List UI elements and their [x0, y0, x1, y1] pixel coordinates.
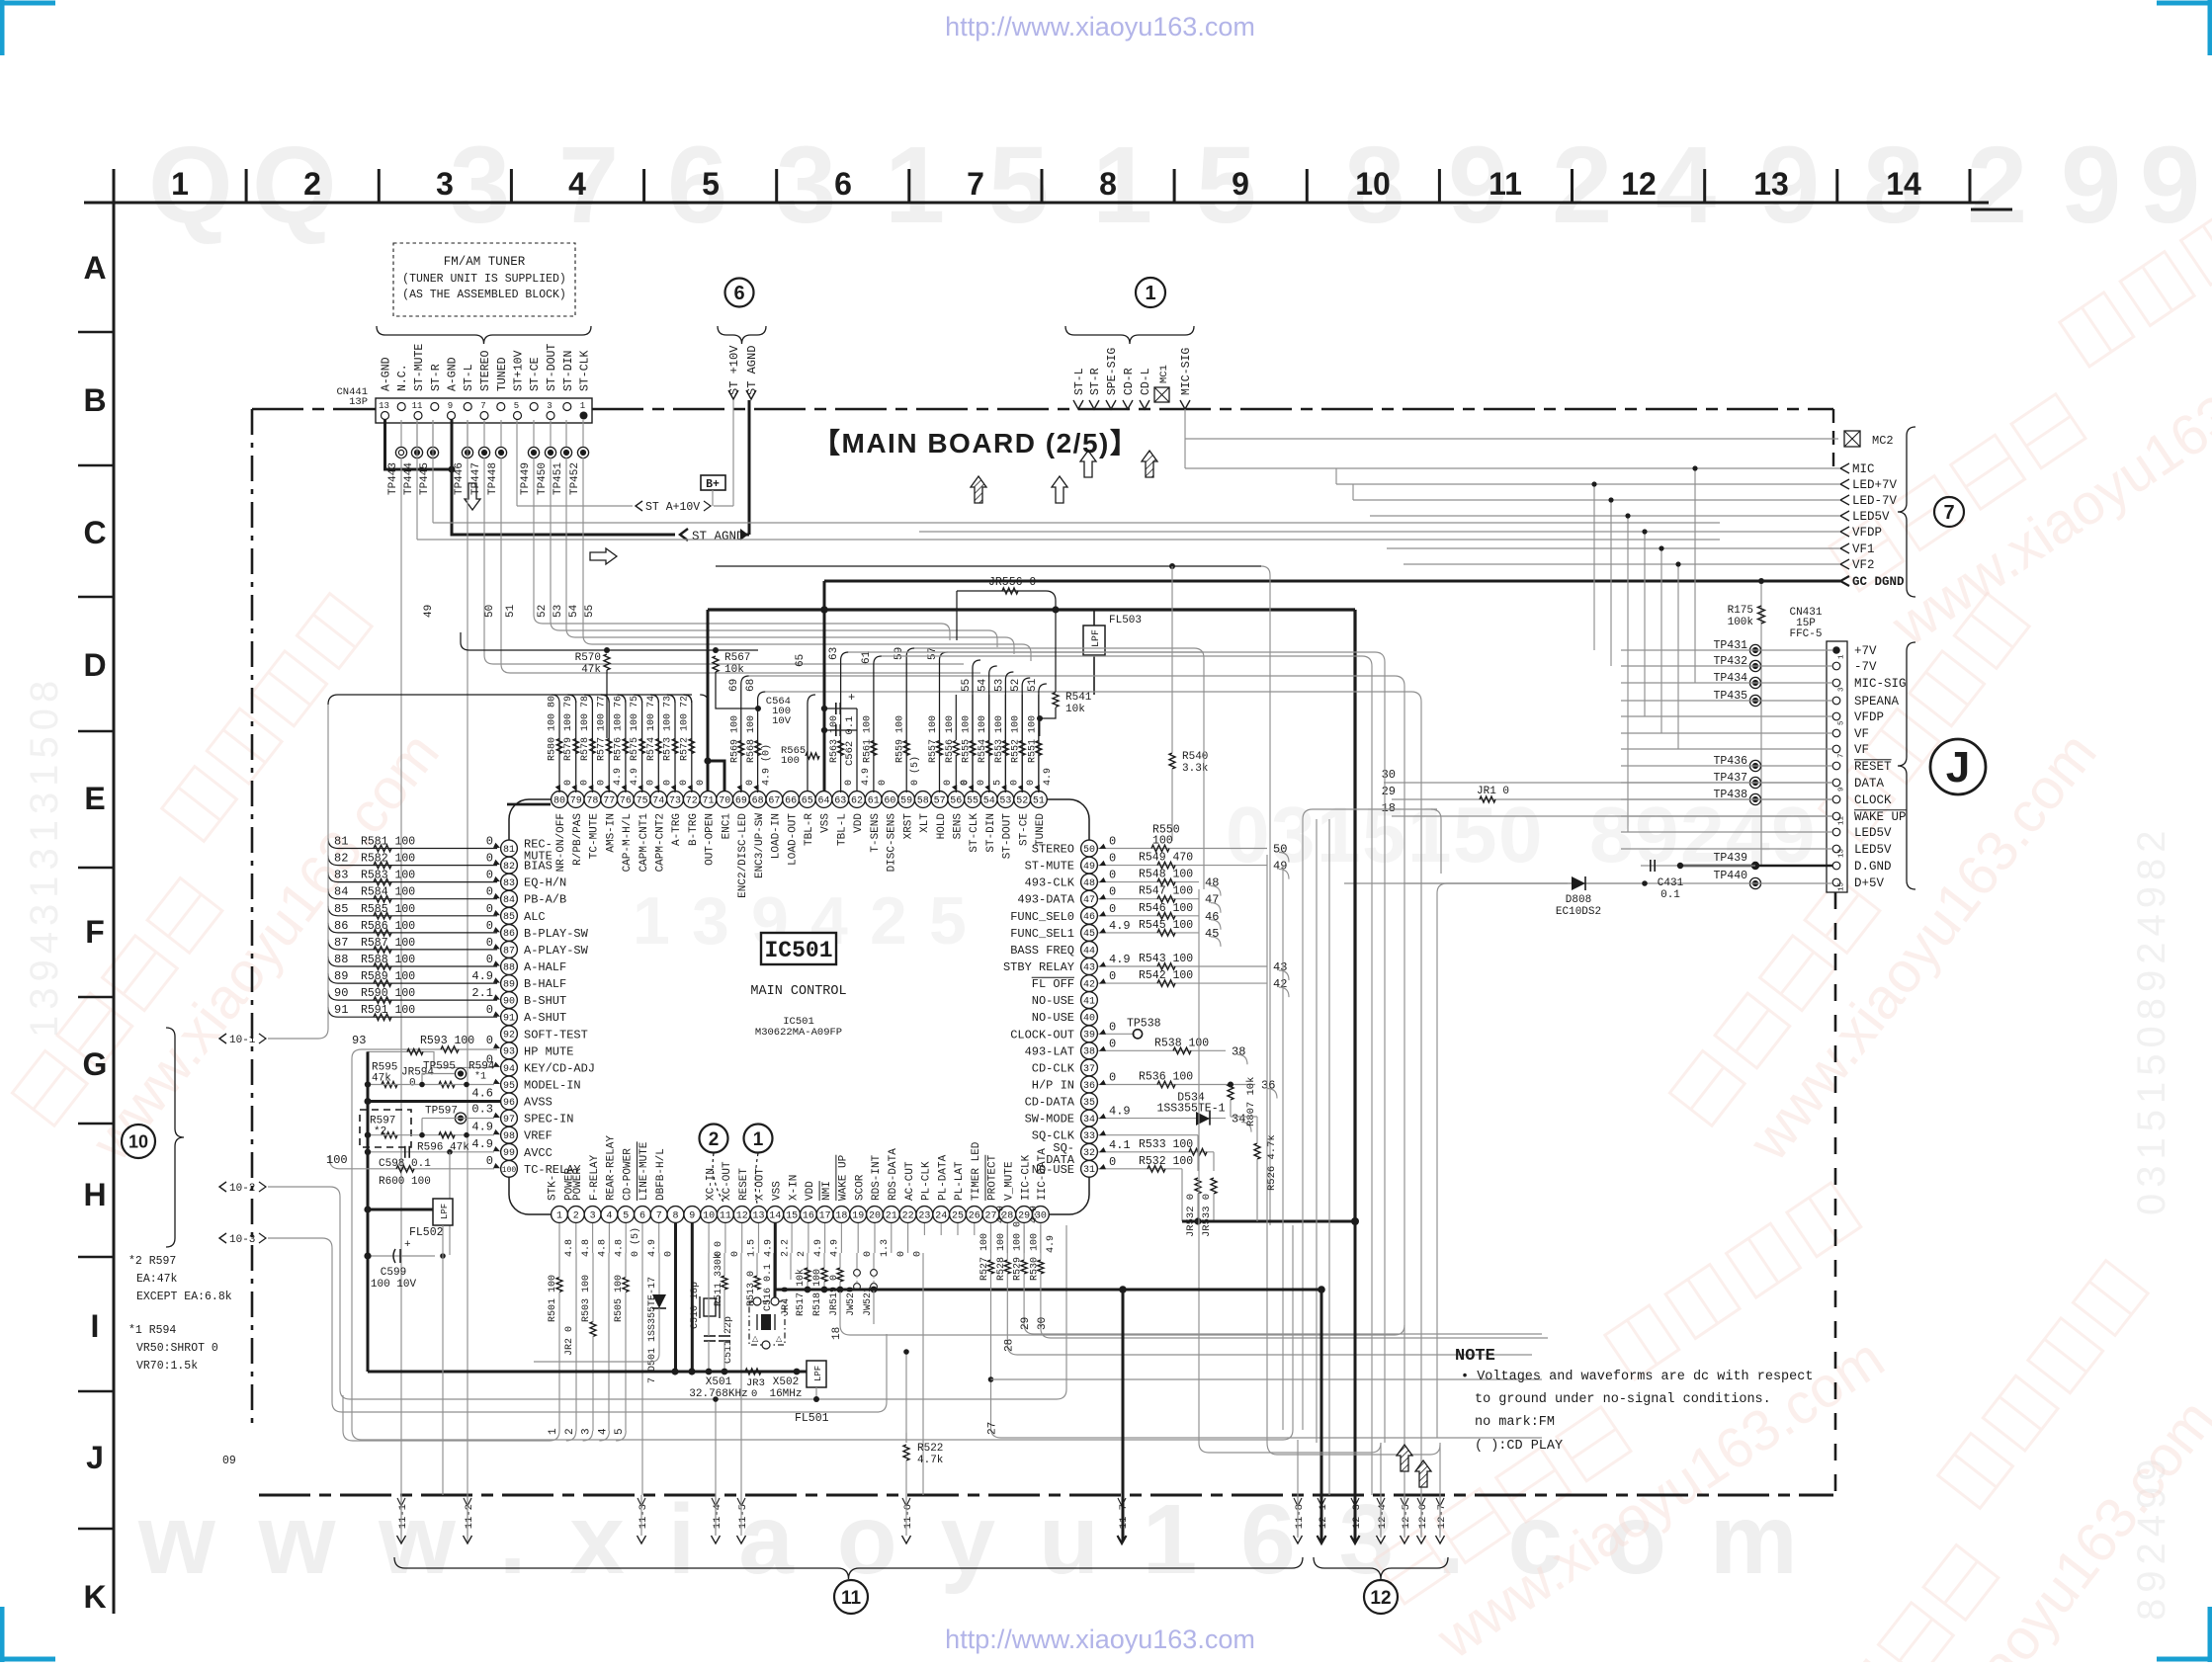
FL502 LPF box: [433, 1199, 453, 1225]
IC501 pin 42 circle: [1081, 975, 1098, 992]
svg-text:98: 98: [503, 1131, 515, 1142]
IC501 pin 13 circle: [750, 1207, 767, 1223]
IC501 pin 14 circle: [767, 1207, 784, 1223]
svg-text:CD-DATA: CD-DATA: [1025, 1096, 1075, 1110]
circled 12: [1364, 1580, 1398, 1614]
svg-text:2: 2: [564, 1428, 576, 1435]
svg-text:1.5: 1.5: [747, 1239, 758, 1257]
svg-text:12: 12: [1370, 1588, 1391, 1609]
svg-text:VREF: VREF: [524, 1129, 553, 1143]
signal ST-L arrow: [1073, 400, 1083, 409]
svg-text:90: 90: [503, 997, 515, 1008]
resistor R577 100: [606, 739, 612, 754]
capacitor C431 0.1: [1641, 865, 1755, 867]
IC501 pin 29 circle: [1016, 1207, 1033, 1223]
svg-text:B-PLAY-SW: B-PLAY-SW: [524, 927, 589, 941]
wire pin 62 VDD column: [856, 708, 858, 792]
svg-text:JR2 0: JR2 0: [564, 1326, 575, 1356]
svg-text:R568 100: R568 100: [746, 715, 757, 763]
svg-text:4: 4: [1656, 125, 1716, 246]
svg-text:14: 14: [769, 1210, 781, 1221]
svg-text:5: 5: [614, 1428, 626, 1435]
CN431 pin 2 -7V: [1832, 662, 1840, 670]
wire top pin 74 column: [650, 695, 658, 792]
svg-text:91: 91: [503, 1014, 515, 1025]
svg-text:60: 60: [884, 795, 895, 806]
svg-text:JR532 0: JR532 0: [1185, 1194, 1197, 1237]
svg-text:0: 0: [486, 885, 493, 899]
wire 69 68 horizontals: [749, 675, 1395, 677]
svg-text:http://www.xiaoyu163.com: http://www.xiaoyu163.com: [945, 1625, 1255, 1654]
wire D.GND heavy: [1680, 865, 1832, 868]
svg-text:0: 0: [486, 902, 493, 916]
svg-text:30: 30: [1037, 1317, 1049, 1330]
svg-text:R549 470: R549 470: [1139, 852, 1193, 865]
svg-text:A-HALF: A-HALF: [524, 960, 566, 974]
svg-text:54: 54: [983, 795, 995, 806]
svg-text:R530 100: R530 100: [1029, 1233, 1040, 1281]
right signal MIC arrow: [1840, 463, 1849, 473]
svg-text:11: 11: [841, 1588, 862, 1609]
wire pin 70 ENC1 heavy jog: [708, 761, 724, 792]
svg-text:4.1: 4.1: [1109, 1138, 1131, 1152]
IC501 pin 61 circle: [865, 792, 882, 808]
brace under tuner box: [377, 326, 591, 344]
top pin 75 arrowhead: [638, 785, 642, 792]
svg-text:53: 53: [999, 795, 1011, 806]
svg-text:1: 1: [753, 1129, 764, 1150]
verticals feeding CN431 region: [1335, 468, 1337, 484]
svg-text:ST-CE: ST-CE: [529, 357, 542, 391]
svg-text:LED+7V: LED+7V: [1852, 478, 1898, 492]
IC501 pin 79 circle: [567, 792, 584, 808]
svg-text:STBY RELAY: STBY RELAY: [1003, 960, 1074, 974]
resistor R567 10k: [713, 647, 719, 653]
row 86 arrow into pin: [493, 927, 500, 932]
svg-text:0: 0: [1109, 969, 1116, 983]
svg-text:0: 0: [745, 780, 756, 786]
svg-text:0: 0: [580, 780, 591, 786]
row 95 arrow: [493, 1079, 500, 1084]
resistor R541 10k: [1055, 610, 1057, 692]
wire LED-7V: [1353, 499, 1840, 501]
svg-text:77: 77: [603, 795, 615, 806]
svg-text:1: 1: [1838, 654, 1846, 659]
svg-text:FL502: FL502: [409, 1226, 444, 1239]
svg-text:I: I: [91, 1308, 100, 1344]
right row 48 arrowhead: [1099, 877, 1106, 882]
svg-text:29: 29: [1382, 785, 1396, 798]
svg-text:H: H: [83, 1177, 106, 1212]
svg-text:1: 1: [1145, 283, 1155, 304]
IC501 pin 5 circle: [618, 1207, 635, 1223]
net 93 bottom run: [352, 1225, 1293, 1440]
svg-text:2: 2: [573, 1210, 579, 1221]
svg-text:VR70:1.5k: VR70:1.5k: [136, 1360, 198, 1373]
svg-text:4.9: 4.9: [1109, 953, 1131, 966]
wire row 95: [368, 1084, 494, 1086]
svg-text:MIC: MIC: [1852, 462, 1875, 476]
svg-text:0: 0: [1109, 869, 1116, 882]
IC501 pin 91 circle: [501, 1009, 518, 1026]
svg-text:47: 47: [1083, 895, 1095, 906]
test point TP446: [462, 447, 472, 458]
svg-text:5: 5: [702, 166, 720, 202]
heavy wire 11-7: [1122, 1290, 1125, 1542]
connector arrow 12-1: [1318, 1536, 1326, 1543]
svg-text:16MHz: 16MHz: [769, 1388, 802, 1400]
svg-text:0: 0: [696, 780, 707, 786]
svg-text:TBL-L: TBL-L: [836, 813, 848, 846]
svg-text:4.9: 4.9: [1109, 919, 1131, 933]
svg-text:11: 11: [412, 401, 423, 411]
svg-text:R517 10k: R517 10k: [795, 1269, 807, 1316]
svg-text:0: 0: [977, 780, 987, 786]
svg-text:VDD: VDD: [805, 1181, 816, 1201]
svg-text:BASS FREQ: BASS FREQ: [1010, 944, 1074, 958]
svg-text:R536 100: R536 100: [1139, 1071, 1193, 1084]
svg-text:R573 100 73: R573 100 73: [663, 696, 674, 761]
svg-text:IC501: IC501: [764, 938, 832, 963]
wire LED+7V: [1336, 483, 1840, 485]
svg-text:R543 100: R543 100: [1139, 953, 1193, 965]
hollow arrow up 1: [1080, 451, 1096, 477]
wire thick A-GND down to ST AGND: [452, 469, 675, 535]
svg-text:1: 1: [556, 1210, 562, 1221]
svg-text:57: 57: [934, 795, 946, 806]
wire row 96 AVSS heavy: [368, 1100, 501, 1103]
wire bottom pin 12 stub: [741, 1223, 743, 1253]
wire pin 14 heavy: [774, 1253, 777, 1297]
svg-text:0: 0: [486, 936, 493, 950]
watermark pink tile right middle: [1625, 594, 2144, 1180]
right bus top corners: [1194, 648, 1204, 889]
circled 10: [122, 1125, 155, 1158]
board outline dashed right vertical upper: [1832, 409, 1834, 466]
svg-text:+: +: [848, 691, 855, 705]
svg-text:R526 4.7k: R526 4.7k: [1266, 1134, 1278, 1191]
svg-text:49: 49: [423, 605, 435, 618]
wire bottom pin 16 stub: [808, 1223, 809, 1253]
svg-text:R557 100: R557 100: [928, 715, 939, 763]
svg-text:56: 56: [950, 795, 962, 806]
svg-text:HP MUTE: HP MUTE: [524, 1044, 573, 1058]
wire LED5V row: [1370, 515, 1840, 517]
hollow arrow up hatched 2: [1142, 451, 1157, 477]
svg-text:0: 0: [486, 852, 493, 866]
wire bottom pin 29 stub: [1023, 1223, 1025, 1253]
wire right region horizontal 892: [1447, 882, 1568, 884]
svg-text:J: J: [86, 1440, 104, 1475]
top pin 79 arrowhead: [571, 785, 576, 792]
svg-text:0: 0: [409, 1077, 416, 1089]
test point TP447: [478, 447, 489, 458]
svg-text:ST-MUTE: ST-MUTE: [1025, 860, 1074, 874]
svg-text:69: 69: [735, 795, 747, 806]
CN431 pin 14 D.GND: [1832, 862, 1840, 870]
svg-text:Q: Q: [252, 125, 337, 246]
wire 10-3: [268, 1238, 887, 1412]
svg-text:10: 10: [703, 1210, 715, 1221]
svg-text:4.8: 4.8: [598, 1239, 609, 1257]
signal SPE-SIG arrow: [1106, 400, 1116, 409]
right row 45 arrowhead: [1099, 928, 1106, 933]
svg-text:0: 0: [486, 1034, 493, 1047]
capacitor C598 0.1: [404, 1146, 406, 1158]
svg-text:12-5: 12-5: [1401, 1504, 1412, 1529]
resistor JR3 0 on xtal bus: [745, 1369, 761, 1375]
svg-text:2: 2: [797, 1251, 808, 1257]
svg-text:CAP-M-H/L: CAP-M-H/L: [622, 813, 634, 872]
board outline dash-dot left vertical: [251, 409, 254, 1430]
CN441 pin 3 circle: [547, 412, 554, 420]
wire FL502 down: [442, 1225, 444, 1256]
svg-text:12: 12: [1621, 166, 1657, 202]
svg-text:LED5V: LED5V: [1852, 510, 1890, 524]
right row 49 arrowhead: [1099, 861, 1106, 866]
svg-text:BIAS: BIAS: [524, 860, 553, 874]
FL501 LPF box: [807, 1361, 826, 1387]
svg-text:10-2: 10-2: [229, 1183, 255, 1195]
svg-text:54: 54: [978, 678, 989, 692]
IC501 pin 48 circle: [1081, 874, 1098, 890]
connector arrow 12-5: [1401, 1536, 1409, 1543]
svg-text:0: 0: [1109, 835, 1116, 849]
svg-text:3: 3: [547, 401, 552, 411]
svg-text:18: 18: [1382, 801, 1396, 815]
svg-text:R547 100: R547 100: [1139, 885, 1193, 898]
svg-text:62: 62: [851, 795, 863, 806]
svg-text:R511 330k 0: R511 330k 0: [713, 1241, 724, 1306]
IC501 pin 47 circle: [1081, 890, 1098, 907]
row 100 arrow: [493, 1163, 500, 1168]
svg-text:LOAD-IN: LOAD-IN: [771, 813, 783, 859]
IC501 pin 59 circle: [898, 792, 915, 808]
CN441 pin 4 circle: [530, 403, 538, 411]
IC501 pin 39 circle: [1081, 1026, 1098, 1042]
svg-text:0: 0: [646, 780, 657, 786]
svg-text:VSS: VSS: [772, 1181, 784, 1201]
svg-text:VF: VF: [1854, 727, 1869, 741]
svg-text:V_MUTE: V_MUTE: [1004, 1161, 1016, 1201]
svg-text:2: 2: [1967, 125, 2027, 246]
svg-text:JR519 0: JR519 0: [829, 1275, 840, 1316]
wire bottom pin 7 stub: [658, 1223, 660, 1253]
svg-text:CD-L: CD-L: [1140, 368, 1152, 395]
resistor R569 100: [738, 741, 744, 756]
wire thick A-GND net from pin13: [385, 420, 453, 469]
wire right row pin 50: [1098, 848, 1267, 850]
svg-text:DBFB-H/L: DBFB-H/L: [655, 1148, 667, 1201]
wire top pin 72 column: [684, 695, 692, 792]
wire top pin 79 column: [568, 695, 576, 792]
svg-text:0: 0: [596, 780, 607, 786]
svg-text:73: 73: [669, 795, 681, 806]
resistor R807 10k: [1230, 1082, 1232, 1085]
svg-text:12: 12: [736, 1210, 748, 1221]
svg-text:61: 61: [868, 795, 880, 806]
svg-text:MODEL-IN: MODEL-IN: [524, 1079, 581, 1093]
capacitor C562 0.1: [824, 729, 857, 731]
connector arrow 11-1: [397, 1536, 406, 1543]
column ticks: [113, 169, 116, 203]
wire top line to right: [716, 565, 1261, 567]
wire row 93: [352, 1049, 497, 1058]
CN441 pin 6 circle: [497, 403, 505, 411]
wire bottom pin 11 stub: [724, 1223, 726, 1253]
svg-text:11: 11: [1838, 815, 1846, 825]
svg-text:14: 14: [1886, 166, 1921, 202]
wire row31 corner down: [1181, 1169, 1183, 1221]
svg-text:11-4: 11-4: [712, 1504, 723, 1529]
svg-text:R553 100: R553 100: [994, 715, 1005, 763]
svg-text:97: 97: [503, 1115, 515, 1125]
svg-text:3: 3: [581, 1428, 593, 1435]
CN431 pin 7 VF: [1832, 745, 1840, 753]
wire 27 corner: [991, 1274, 1543, 1438]
svg-text:66: 66: [785, 795, 797, 806]
IC501 pin 90 circle: [501, 992, 518, 1009]
svg-text:LPF: LPF: [1091, 629, 1102, 647]
svg-text:R548 100: R548 100: [1139, 869, 1193, 881]
wire bottom pin 5 stub: [625, 1223, 627, 1253]
wire VFDP: [919, 531, 1840, 533]
connector arrow 11-7: [1118, 1536, 1127, 1543]
wire top pin 80 column: [552, 695, 559, 792]
IC501 pin 37 circle: [1081, 1059, 1098, 1076]
svg-text:0: 0: [1109, 852, 1116, 866]
CN441 pin 12 circle: [397, 403, 405, 411]
resistor R575 100: [639, 739, 645, 754]
right signal VF1 arrow: [1840, 543, 1849, 553]
resistor R526 4.7k: [1254, 1143, 1260, 1159]
wire 10-1: [268, 705, 328, 1039]
svg-text:R574 100 74: R574 100 74: [646, 696, 657, 761]
svg-text:4.9: 4.9: [764, 1239, 775, 1257]
row 98 arrow: [493, 1129, 500, 1134]
svg-text:AVSS: AVSS: [524, 1096, 553, 1110]
IC501 pin 93 circle: [501, 1042, 518, 1059]
svg-text:R579 100 79: R579 100 79: [563, 696, 574, 761]
wire top pin 76 column: [618, 695, 626, 792]
svg-text:87: 87: [334, 936, 348, 950]
test point TP538 row 39: [1098, 1033, 1135, 1035]
hatched arrows bottom right: [1397, 1445, 1412, 1471]
IC501 pin 49 circle: [1081, 857, 1098, 874]
wire bottom pin 14 stub: [774, 1223, 777, 1290]
svg-text:89: 89: [334, 969, 348, 983]
wire heavy B-TRG to pin 80 region: [507, 803, 551, 806]
wire row32 corner down: [1213, 1152, 1215, 1171]
svg-text:C599: C599: [381, 1267, 406, 1279]
svg-text:C511 22p: C511 22p: [723, 1316, 734, 1364]
svg-text:49: 49: [1083, 862, 1095, 873]
IC501 pin 38 circle: [1081, 1042, 1098, 1059]
svg-text:0: 0: [844, 780, 855, 786]
CN441 pin 7 circle: [480, 412, 488, 420]
svg-text:KEY/CD-ADJ: KEY/CD-ADJ: [524, 1061, 595, 1075]
svg-text:no mark:FM: no mark:FM: [1475, 1415, 1555, 1430]
IC501 pin 94 circle: [501, 1059, 518, 1076]
svg-text:58: 58: [917, 795, 929, 806]
row 87 arrow into pin: [493, 944, 500, 949]
IC501 name box: [761, 933, 836, 964]
svg-text:ST A+10V: ST A+10V: [645, 501, 700, 514]
wire ST+10V to B+: [516, 420, 518, 506]
svg-text:8: 8: [1589, 791, 1634, 878]
svg-text:R555 100: R555 100: [962, 715, 973, 763]
svg-text:MIC-SIG: MIC-SIG: [1854, 677, 1907, 691]
xtal bus heavy horizontal: [368, 1371, 797, 1374]
svg-text:68: 68: [752, 795, 764, 806]
net 93 vertical down: [351, 1058, 353, 1430]
CN441 pin 9 circle: [448, 412, 456, 420]
svg-text:R552 100: R552 100: [1011, 715, 1022, 763]
svg-text:4.9: 4.9: [1043, 768, 1054, 786]
svg-text:NOTE: NOTE: [1455, 1347, 1495, 1366]
svg-text:ST-CLK: ST-CLK: [969, 813, 980, 853]
svg-text:13: 13: [1753, 166, 1789, 202]
svg-text:09: 09: [222, 1455, 236, 1467]
wire to arrow 11-1: [400, 1495, 402, 1536]
bottom run 1458: [353, 1440, 550, 1442]
connector arrow 12-4: [1377, 1536, 1386, 1543]
wire right row pin 49: [1098, 865, 1267, 867]
diode D534 1SS355TE-1 row 34: [1098, 1118, 1226, 1120]
svg-text:NO-USE: NO-USE: [1032, 994, 1074, 1008]
svg-text:4.9: 4.9: [1029, 1206, 1040, 1223]
connector arrow 12-6: [1417, 1536, 1426, 1543]
bus bottoms joins: [1199, 1443, 1381, 1453]
svg-text:3.3k: 3.3k: [1182, 763, 1209, 775]
svg-text:7 D501 1SS355TE-17: 7 D501 1SS355TE-17: [647, 1277, 658, 1383]
svg-text:R572 100 72: R572 100 72: [679, 696, 690, 761]
svg-text:X-OUT: X-OUT: [755, 1168, 767, 1201]
top pin 78 arrowhead: [588, 785, 593, 792]
svg-text:91: 91: [334, 1003, 348, 1017]
svg-text:10: 10: [128, 1131, 148, 1151]
svg-text:F: F: [85, 914, 105, 950]
IC501 pin 2 circle: [567, 1207, 584, 1223]
svg-text:32: 32: [1083, 1148, 1095, 1159]
IC501 pin 3 circle: [584, 1207, 601, 1223]
svg-text:42: 42: [1083, 980, 1095, 991]
svg-text:VF: VF: [1854, 743, 1869, 757]
resistor R579 100: [573, 739, 579, 754]
IC501 pin 100 circle: [501, 1160, 518, 1177]
svg-text:TP440: TP440: [1713, 870, 1747, 882]
wire TUNED down: [500, 458, 502, 664]
svg-text:TP450: TP450: [537, 462, 549, 495]
svg-text:0: 0: [878, 780, 889, 786]
IC501 pin 33 circle: [1081, 1126, 1098, 1143]
svg-text:B+: B+: [706, 478, 720, 491]
svg-text:493-LAT: 493-LAT: [1025, 1044, 1074, 1058]
svg-text:10-1: 10-1: [229, 1035, 256, 1046]
svg-text:1: 1: [633, 883, 670, 959]
svg-text:9: 9: [2061, 125, 2121, 246]
svg-text:TP449: TP449: [520, 462, 532, 495]
svg-text:55: 55: [967, 795, 978, 806]
svg-text:TP444: TP444: [403, 462, 415, 495]
svg-text:9: 9: [689, 1210, 695, 1221]
svg-text:VSS: VSS: [820, 813, 832, 833]
IC501 pin 44 circle: [1081, 942, 1098, 959]
wire pin 18 corner: [839, 1292, 841, 1325]
IC501 pin 71 circle: [700, 792, 717, 808]
svg-text:ST-CE: ST-CE: [1018, 813, 1030, 846]
svg-text:MAIN CONTROL: MAIN CONTROL: [750, 984, 846, 999]
